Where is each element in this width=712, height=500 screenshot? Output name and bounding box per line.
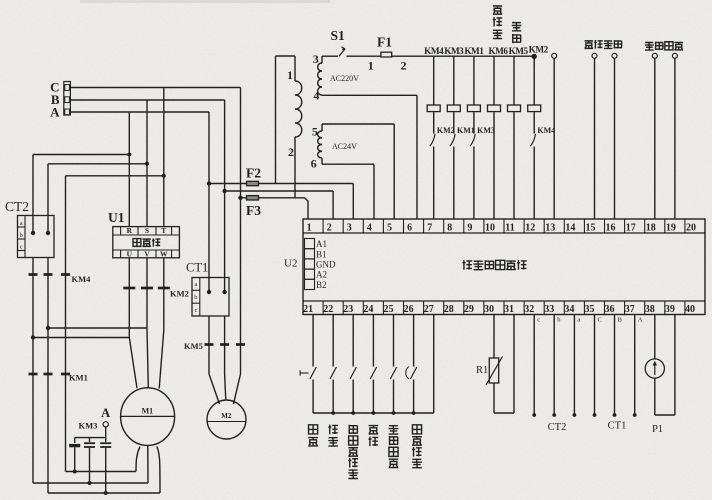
node input bus terminal 23 xyxy=(351,411,355,415)
label air filter (Chinese, vertical) xyxy=(389,426,399,434)
wire water shortage input xyxy=(332,315,334,367)
auxiliary contact KM4 xyxy=(530,134,535,146)
wire KM3 column 1 lower xyxy=(74,448,76,472)
node KM3 column 2 on bus xyxy=(88,481,92,485)
wire emergency stop input xyxy=(312,315,314,367)
wire CT2 stub b xyxy=(553,315,555,416)
wire motor lead V xyxy=(146,258,148,328)
wire secondary pin 6 to terminal 4 xyxy=(322,163,374,165)
wire phase A below CT1 xyxy=(208,316,210,345)
label fault status (Chinese) xyxy=(645,43,654,51)
fuse F2 xyxy=(247,181,259,185)
node on S feed xyxy=(145,162,149,166)
fault status wire 2 xyxy=(672,53,677,58)
contactor KM4 main contacts xyxy=(29,273,38,276)
wire S feed to bypass column 2 xyxy=(48,163,147,165)
wire bypass column 1 through CT2 xyxy=(32,155,34,234)
contactor KM3 contact 2 xyxy=(84,442,95,444)
wire KM5 to M2 lead 3 xyxy=(240,345,242,375)
switch contact terminal 21 xyxy=(310,367,316,379)
switch contact terminal 23 xyxy=(350,367,356,379)
wire oil separator input xyxy=(372,315,374,367)
wire fuse F2 to terminal 3 xyxy=(209,183,353,185)
wire T feed (phase C to U1 T) xyxy=(163,88,165,227)
node KM3 column 3 on bus xyxy=(104,491,108,495)
relay coil KM3 branch xyxy=(453,56,455,105)
wire node A to KM3 bus xyxy=(105,427,107,438)
node CT2 phase 1 xyxy=(31,231,35,235)
wire motor lead V lower xyxy=(147,328,148,388)
node phase A fuse tap xyxy=(207,181,211,185)
wire S1 to F1 xyxy=(347,55,381,57)
wire phase B below CT1 xyxy=(224,316,226,345)
U2 communication pins A1 B1 GND A2 B2 xyxy=(305,239,315,249)
wire transformer primary to terminal 1 xyxy=(295,198,308,219)
label start status (Chinese) xyxy=(585,41,594,48)
wire phase B column down to CT1 xyxy=(224,100,226,292)
wire KM5 to M2 lead 2 xyxy=(224,345,226,375)
relay coil KM6 branch xyxy=(493,56,495,105)
wire phase A column down to CT1 xyxy=(208,112,210,292)
node on R feed xyxy=(127,153,131,157)
node CT1 phase a xyxy=(207,290,211,294)
node input bus terminal 25 xyxy=(392,411,396,415)
current transformer CT1 box xyxy=(192,278,229,317)
wire CT1 stub B xyxy=(614,315,616,416)
node bypass column 1 tap xyxy=(31,335,35,339)
node phase C fuse tap xyxy=(238,196,242,200)
inverter U1 box xyxy=(113,227,180,258)
contactor KM2 main contacts xyxy=(123,287,135,290)
transformer primary winding, pins 1-2 xyxy=(276,55,296,57)
wire M1 bottom lead 2 xyxy=(147,445,149,483)
wire T feed to bypass column 3 xyxy=(66,175,164,177)
switch contact terminal 24 xyxy=(370,367,376,379)
wire R feed to bypass column 1 xyxy=(33,154,129,156)
wire air filter input xyxy=(393,315,395,367)
label fan (Chinese, vertical) xyxy=(512,23,522,31)
wire bypass column 2 through CT2 xyxy=(47,164,49,233)
wire KM3 column 2 upper xyxy=(89,438,91,442)
wire secondary pin 4 to terminal 6 xyxy=(322,94,417,96)
wire input common xyxy=(433,315,435,367)
wire phase A xyxy=(70,111,209,113)
wire KM3 top bus xyxy=(75,437,106,439)
wire terminal 30 to R1 xyxy=(493,315,495,359)
node input bus terminal 26 xyxy=(412,411,416,415)
current transformer CT2 box xyxy=(18,216,55,258)
label emergency stop (Chinese, vertical) xyxy=(309,425,318,434)
node CT2 phase 2 xyxy=(46,231,50,235)
wire M1 bottom lead 3 xyxy=(157,446,160,493)
auxiliary contact KM1 xyxy=(450,134,455,146)
compressor controller U2 box xyxy=(303,219,705,315)
wire secondary pin 5 to terminal 5 xyxy=(322,123,394,125)
start status wire 3 xyxy=(612,53,617,58)
wire KM3 column 3 upper xyxy=(105,438,107,442)
wire KM3 column 1 upper xyxy=(74,438,76,443)
switch S1 xyxy=(322,55,338,57)
pressure sensor P1 xyxy=(645,359,664,378)
thermistor R1 xyxy=(489,358,498,383)
wire motor lead W xyxy=(163,258,165,330)
node on T feed xyxy=(162,174,166,178)
wire S feed (phase B to U1 S) xyxy=(146,100,148,227)
start status wire 1 xyxy=(552,53,557,58)
node control bus end xyxy=(532,54,537,59)
node KM3 column 1 on bus xyxy=(73,470,77,474)
node input bus terminal 22 xyxy=(331,411,335,415)
wire M1 bottom lead 1 xyxy=(136,447,140,472)
switch contact terminal 22 xyxy=(330,367,336,379)
wire fuse F3 to transformer primary xyxy=(241,197,296,199)
switch contact terminal 25 xyxy=(390,367,396,379)
auxiliary contact KM3 xyxy=(470,134,475,146)
wire bypass column 3 xyxy=(65,176,67,472)
U1 label inverter (Chinese) xyxy=(133,239,141,247)
wire phase B to terminal 2 xyxy=(225,190,334,192)
remote switch actuator mark xyxy=(406,367,409,380)
wire CT1 stub C xyxy=(634,315,636,416)
label inverter fault (Chinese, vertical) xyxy=(349,425,358,434)
contactor KM3 contact 1 xyxy=(69,444,80,447)
contactor KM3 contact 3 xyxy=(100,442,111,444)
controller title (Chinese) xyxy=(462,260,472,270)
wire KM3 column 3 lower xyxy=(105,448,107,493)
wire bus to motor bottom lead 3 xyxy=(48,492,160,494)
label oil separator (Chinese, vertical) xyxy=(369,426,379,434)
wire motor lead U lower xyxy=(129,338,137,389)
wire R1 to terminal 31 xyxy=(493,383,495,413)
motor M1 xyxy=(121,388,175,446)
label loading valve (Chinese, vertical) xyxy=(493,6,502,14)
auxiliary contact KM2 xyxy=(430,134,435,146)
wire phase C xyxy=(70,87,240,89)
wire CT2 stub a xyxy=(533,315,535,416)
relay coil KM2 branch xyxy=(533,56,535,105)
wire motor lead U xyxy=(128,258,130,338)
node A terminal circle xyxy=(103,422,108,427)
wire CT1 stub A xyxy=(594,315,596,416)
wire KM5 to M2 lead 1 xyxy=(208,345,210,375)
3-phase input connector X1 (phases C/B/A) xyxy=(64,82,71,116)
switch contact terminal 26 xyxy=(410,367,416,379)
wire KM3 column 2 lower xyxy=(89,448,91,483)
relay coil KM1 branch xyxy=(473,56,475,105)
node phase B terminal tap xyxy=(222,189,226,193)
start status wire 2 xyxy=(592,53,597,58)
wire bypass column 2 to motor lead V xyxy=(48,327,147,329)
relay coil KM5 branch xyxy=(513,56,515,105)
contactor KM1 main contacts xyxy=(29,373,38,376)
emergency stop actuator mark xyxy=(300,372,309,374)
wire CT2 stub c xyxy=(573,315,575,416)
wire P1 to terminal 39 xyxy=(654,378,656,415)
relay coil KM4 branch xyxy=(433,56,435,105)
motor M2 xyxy=(207,400,246,439)
transformer secondary AC24V winding, pins 5-6 xyxy=(321,124,323,131)
transformer secondary AC220V winding, pins 3-4 xyxy=(321,56,323,63)
contactor KM5 main contacts xyxy=(205,343,214,346)
wire control bus to KM2 column xyxy=(392,55,535,57)
node bypass column 2 tap xyxy=(46,326,50,330)
wire bus to motor bottom lead 1 xyxy=(66,471,137,473)
node input bus terminal 24 xyxy=(372,411,376,415)
wire bus to motor bottom lead 2 xyxy=(33,482,148,484)
wire phase B xyxy=(70,99,224,101)
label water shortage (Chinese, vertical) xyxy=(328,425,338,435)
label remote switch (Chinese, vertical) xyxy=(412,425,421,434)
node CT1 phase b xyxy=(222,290,226,294)
wire motor lead W lower xyxy=(159,330,164,389)
wire terminal 38 to P1 xyxy=(654,315,656,360)
wire bypass column 1 to motor lead U xyxy=(33,337,129,339)
fuse F3 xyxy=(247,196,259,200)
wire input common bus xyxy=(313,412,434,414)
fault status wire 1 xyxy=(652,53,657,58)
fuse F1 xyxy=(381,52,392,57)
wire R feed (phase A to U1 R) xyxy=(128,112,130,227)
wire remote switch input xyxy=(413,315,415,367)
wire phase C column down to KM5 xyxy=(240,88,242,345)
wire inverter fault input xyxy=(352,315,354,367)
